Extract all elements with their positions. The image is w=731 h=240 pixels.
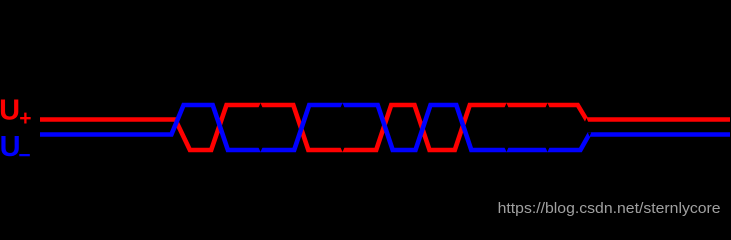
bit-boundary tick notch (top line, x=547.5) [545,103,549,108]
wire U- (blue differential trace) [40,105,730,150]
bit-boundary tick notch (bottom line, x=506.5) [504,147,508,152]
bit-boundary tick notch (top line, x=260.5) [258,103,262,108]
svg-text:−: − [18,144,30,167]
bit-boundary tick notch (bottom line, x=260.5) [258,147,262,152]
svg-text:+: + [19,107,31,130]
wire U+ (red differential trace) [40,105,730,150]
bit-boundary tick notch (top line, x=506.5) [504,103,508,108]
svg-text:U: U [0,95,20,127]
tick notch at blue bend to idle (x=589.5) [588,133,591,137]
svg-text:https://blog.csdn.net/sternlyc: https://blog.csdn.net/sternlycore [498,200,721,217]
tick notch at red bend to idle (x=586.5) [585,118,588,122]
bit-boundary tick notch (top line, x=342.5) [340,103,344,108]
bit-boundary tick notch (bottom line, x=547.5) [545,147,549,152]
bit-boundary tick notch (bottom line, x=342.5) [340,147,344,152]
